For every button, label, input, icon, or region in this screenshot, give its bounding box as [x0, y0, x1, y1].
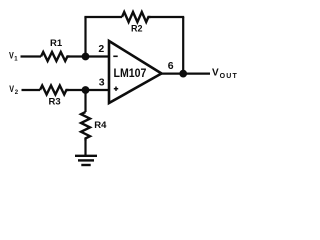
svg-text:V: V [9, 84, 14, 94]
wire output [161, 72, 211, 74]
svg-text:R1: R1 [50, 38, 63, 49]
wire node B down to R4 [84, 90, 86, 112]
minus sign inverting input [113, 55, 117, 57]
wire R1 to pin 2 [70, 55, 109, 57]
node VOUT label [212, 68, 238, 80]
resistor R2 [122, 12, 151, 22]
svg-text:OUT: OUT [220, 73, 238, 80]
svg-text:2: 2 [15, 90, 19, 96]
wire feedback left vertical [84, 17, 86, 57]
svg-text:V: V [212, 68, 219, 79]
op-amp U1 LM107 [109, 41, 162, 103]
wire feedback right vertical [182, 17, 184, 74]
node V2 input label [9, 84, 19, 96]
wire V2 to R3 [22, 89, 41, 91]
node V1 input label [9, 50, 18, 62]
wire feedback top left [84, 16, 122, 18]
wire V1 to R1 [21, 55, 42, 57]
resistor R1 [41, 52, 70, 61]
wire feedback top right [151, 16, 185, 18]
node B junction dot (non-inverting input) [82, 86, 90, 94]
resistor R4 [81, 112, 90, 141]
wire R3 to pin 3 [69, 89, 109, 91]
plus sign non-inverting input [114, 87, 118, 91]
svg-text:3: 3 [99, 77, 105, 89]
svg-text:V: V [9, 50, 14, 60]
resistor R3 [40, 86, 69, 95]
svg-text:1: 1 [14, 57, 18, 63]
node A junction dot (inverting input) [82, 53, 90, 61]
svg-text:R2: R2 [131, 23, 143, 33]
svg-text:R3: R3 [49, 97, 61, 108]
svg-text:R4: R4 [94, 120, 107, 131]
svg-text:2: 2 [98, 43, 104, 55]
svg-text:LM107: LM107 [114, 67, 147, 80]
ground [75, 156, 97, 165]
node output junction dot [179, 70, 187, 78]
svg-text:6: 6 [168, 60, 174, 72]
wire R4 to ground [84, 141, 86, 156]
